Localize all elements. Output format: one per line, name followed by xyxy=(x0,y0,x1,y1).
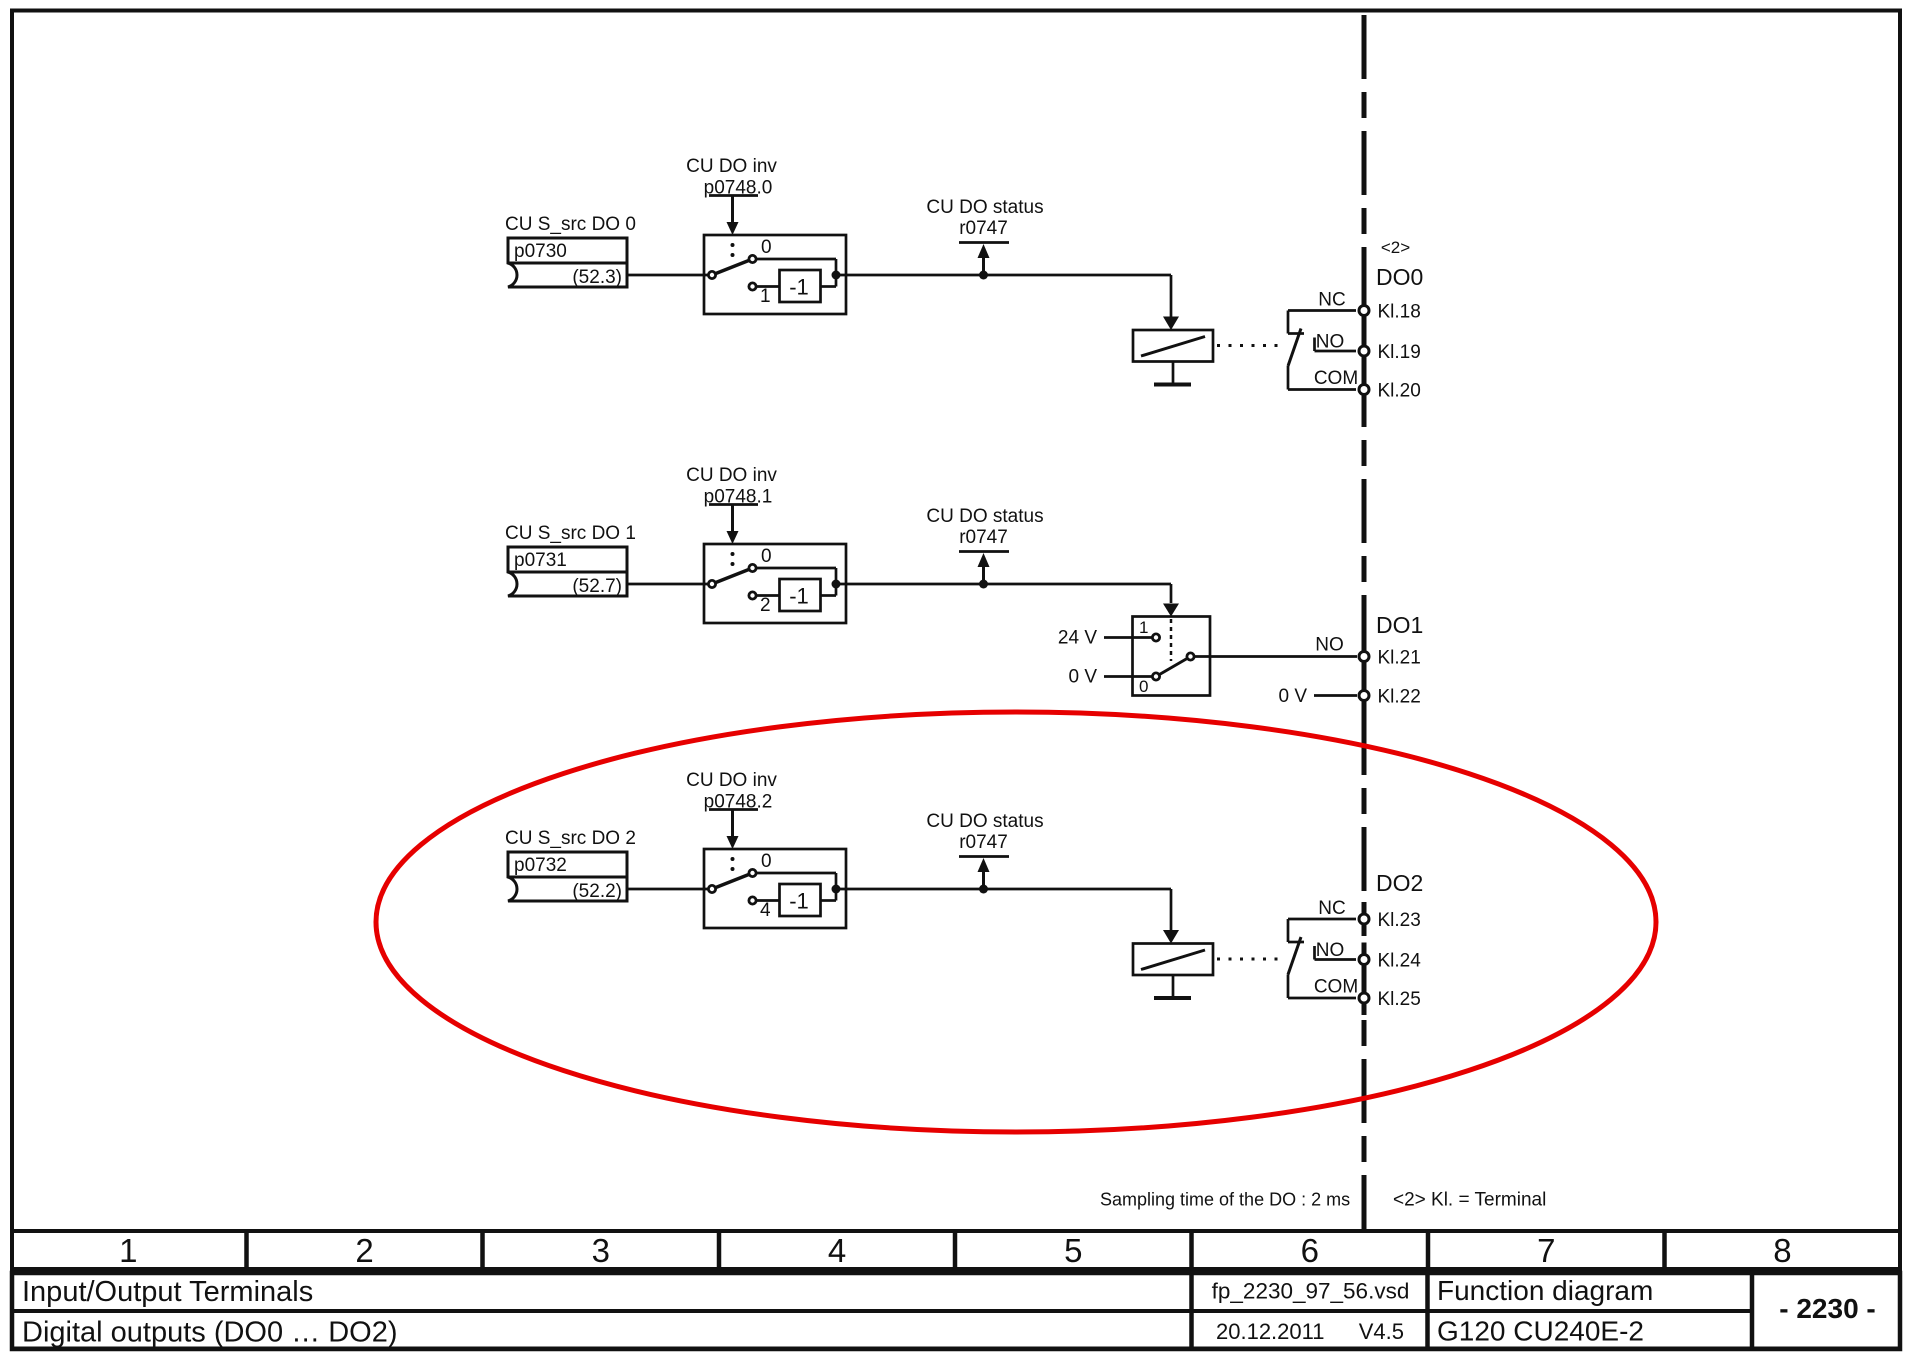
svg-text:r0747: r0747 xyxy=(959,218,1008,239)
parameter label p0748.2 (CU DO inv) with arrow into switch DO2 xyxy=(686,770,777,849)
svg-text:CU S_src DO 1: CU S_src DO 1 xyxy=(505,523,636,544)
svg-text:4: 4 xyxy=(760,900,771,921)
svg-text:CU DO inv: CU DO inv xyxy=(686,770,777,791)
svg-text:0 V: 0 V xyxy=(1278,686,1307,707)
svg-text:0: 0 xyxy=(761,546,772,567)
svg-text:CU S_src DO 2: CU S_src DO 2 xyxy=(505,828,636,849)
status tap r0747 (CU DO status) DO0 xyxy=(926,197,1043,280)
ground at relay coil K2 xyxy=(1154,975,1191,998)
terminal Kl.21 (DO1) xyxy=(1359,640,1421,674)
relay changeover contact DO2 (NC/NO/COM) xyxy=(1288,898,1358,998)
svg-text:6: 6 xyxy=(1301,1232,1319,1269)
inverter block -1 (DO2) xyxy=(780,884,821,916)
supply label 24 V with wire into driver DO1 xyxy=(1058,628,1152,649)
svg-text:0: 0 xyxy=(761,851,772,872)
inverter block -1 (DO0) xyxy=(780,270,821,302)
wire DO2 down to relay coil K2 (arrow) xyxy=(1163,889,1179,944)
relay coil K0 (DO0) xyxy=(1133,330,1213,362)
svg-text:Sampling time of the DO : 2 ms: Sampling time of the DO : 2 ms xyxy=(1100,1190,1350,1210)
mechanical link (dotted) coil K2 to contact set DO2 xyxy=(1217,958,1286,961)
svg-text:NC: NC xyxy=(1318,290,1345,311)
terminal Kl.25 (DO2) xyxy=(1359,981,1421,1015)
ground at relay coil K0 xyxy=(1154,362,1191,385)
svg-text:-1: -1 xyxy=(789,889,809,914)
svg-text:1: 1 xyxy=(760,286,771,307)
svg-text:4: 4 xyxy=(828,1232,846,1269)
svg-text:8: 8 xyxy=(1773,1232,1791,1269)
wire DO1 switch output to driver xyxy=(836,583,1171,586)
terminal Kl.22 (DO1) xyxy=(1359,679,1421,713)
relay coil K2 (DO2) xyxy=(1133,944,1213,976)
svg-text:Kl.24: Kl.24 xyxy=(1378,951,1422,972)
svg-text:NO: NO xyxy=(1316,332,1345,353)
svg-text:0: 0 xyxy=(761,237,772,258)
wire p0730 output to inverter switch DO0 xyxy=(627,274,709,277)
red highlight ellipse around DO2 circuit xyxy=(376,712,1656,1132)
BICO source connector p0731 (CU S_src DO 1) xyxy=(505,523,636,597)
inverter selector switch (CU DO inv) DO0 xyxy=(704,235,846,314)
svg-text:p0730: p0730 xyxy=(514,241,567,262)
svg-text:Kl.21: Kl.21 xyxy=(1378,648,1421,669)
terminal Kl.19 (DO0) xyxy=(1359,334,1421,368)
svg-text:1: 1 xyxy=(119,1232,137,1269)
svg-text:G120 CU240E-2: G120 CU240E-2 xyxy=(1437,1316,1644,1347)
svg-text:NC: NC xyxy=(1318,898,1345,919)
svg-text:<2>: <2> xyxy=(1381,238,1410,257)
node: inverter switch output DO2 xyxy=(832,885,841,894)
svg-text:CU DO status: CU DO status xyxy=(926,197,1043,218)
svg-text:-1: -1 xyxy=(789,584,809,609)
svg-text:CU S_src DO 0: CU S_src DO 0 xyxy=(505,214,636,235)
parameter label p0748.1 (CU DO inv) with arrow into switch DO1 xyxy=(686,465,777,544)
svg-text:3: 3 xyxy=(592,1232,610,1269)
wire p0731 output to inverter switch DO1 xyxy=(627,583,709,586)
svg-text:<2> Kl. = Terminal: <2> Kl. = Terminal xyxy=(1393,1190,1546,1211)
svg-text:CU DO status: CU DO status xyxy=(926,506,1043,527)
node: inverter switch output DO0 xyxy=(832,271,841,280)
title block: column ruler (1-8) xyxy=(12,1231,1900,1269)
svg-text:Digital outputs (DO0 … DO2): Digital outputs (DO0 … DO2) xyxy=(22,1317,398,1349)
svg-text:0 V: 0 V xyxy=(1068,667,1097,688)
title block text: date / version xyxy=(1216,1319,1404,1344)
svg-text:Kl.23: Kl.23 xyxy=(1378,910,1421,931)
svg-text:7: 7 xyxy=(1537,1232,1555,1269)
output driver switch DO1 (24V/0V selector) xyxy=(1133,617,1211,697)
BICO source connector p0732 (CU S_src DO 2) xyxy=(505,828,636,902)
svg-text:DO0: DO0 xyxy=(1376,264,1423,290)
svg-text:r0747: r0747 xyxy=(959,527,1008,548)
supply label 0 V at terminal Kl.22 xyxy=(1278,686,1357,707)
svg-text:r0747: r0747 xyxy=(959,832,1008,853)
svg-text:Kl.22: Kl.22 xyxy=(1378,687,1421,708)
mechanical link (dotted) coil K0 to contact set DO0 xyxy=(1217,344,1286,347)
svg-text:fp_2230_97_56.vsd: fp_2230_97_56.vsd xyxy=(1212,1279,1410,1304)
relay changeover contact DO0 (NC/NO/COM) xyxy=(1288,290,1358,390)
svg-text:DO1: DO1 xyxy=(1376,612,1423,638)
supply label 0 V with wire into driver DO1 xyxy=(1068,667,1151,688)
wire p0732 output to inverter switch DO2 xyxy=(627,888,709,891)
svg-text:p0731: p0731 xyxy=(514,550,567,571)
svg-text:- 2230 -: - 2230 - xyxy=(1779,1293,1876,1324)
wire DO0 down to relay coil K0 (arrow) xyxy=(1163,275,1179,330)
svg-text:(52.2): (52.2) xyxy=(572,881,622,902)
svg-text:CU DO status: CU DO status xyxy=(926,811,1043,832)
parameter label p0748.0 (CU DO inv) with arrow into switch DO0 xyxy=(686,156,777,235)
svg-text:5: 5 xyxy=(1064,1232,1082,1269)
svg-text:20.12.2011: 20.12.2011 xyxy=(1216,1319,1324,1344)
wire DO1 down to output driver (arrow) xyxy=(1163,584,1179,617)
svg-text:0: 0 xyxy=(1139,677,1148,696)
svg-text:NO: NO xyxy=(1315,635,1344,656)
status tap r0747 (CU DO status) DO2 xyxy=(926,811,1043,894)
svg-text:CU DO inv: CU DO inv xyxy=(686,465,777,486)
svg-text:Kl.19: Kl.19 xyxy=(1378,342,1421,363)
status tap r0747 (CU DO status) DO1 xyxy=(926,506,1043,589)
node: inverter switch output DO1 xyxy=(832,580,841,589)
svg-text:COM: COM xyxy=(1314,977,1358,998)
svg-text:Kl.20: Kl.20 xyxy=(1378,381,1421,402)
svg-text:Input/Output Terminals: Input/Output Terminals xyxy=(22,1276,313,1308)
wire DO2 switch output to driver xyxy=(836,888,1171,891)
inverter selector switch (CU DO inv) DO1 xyxy=(704,544,846,623)
svg-text:DO2: DO2 xyxy=(1376,870,1423,896)
terminal Kl.20 (DO0) xyxy=(1359,373,1421,407)
terminal Kl.18 (DO0) xyxy=(1359,294,1421,328)
terminal bus line (dashed, Kl. terminals) xyxy=(1362,15,1367,1229)
wire driver DO1 output to terminal Kl.21 xyxy=(1195,635,1357,657)
terminal Kl.23 (DO2) xyxy=(1359,902,1421,936)
inverter block -1 (DO1) xyxy=(780,579,821,611)
svg-text:NO: NO xyxy=(1316,940,1345,961)
svg-text:-1: -1 xyxy=(789,275,809,300)
svg-text:(52.7): (52.7) xyxy=(572,576,622,597)
terminal Kl.24 (DO2) xyxy=(1359,943,1421,977)
svg-text:V4.5: V4.5 xyxy=(1359,1319,1404,1344)
BICO source connector p0730 (CU S_src DO 0) xyxy=(505,214,636,288)
svg-text:1: 1 xyxy=(1139,618,1148,637)
title block: main table xyxy=(12,1273,1900,1349)
wire DO0 switch output to driver xyxy=(836,274,1171,277)
svg-text:(52.3): (52.3) xyxy=(572,267,622,288)
svg-text:p0732: p0732 xyxy=(514,855,567,876)
svg-text:Kl.25: Kl.25 xyxy=(1378,989,1421,1010)
svg-text:2: 2 xyxy=(355,1232,373,1269)
svg-text:Function diagram: Function diagram xyxy=(1437,1275,1653,1306)
inverter selector switch (CU DO inv) DO2 xyxy=(704,849,846,928)
svg-text:24 V: 24 V xyxy=(1058,628,1097,649)
svg-text:2: 2 xyxy=(760,595,771,616)
svg-text:COM: COM xyxy=(1314,368,1358,389)
svg-text:Kl.18: Kl.18 xyxy=(1378,302,1421,323)
svg-text:CU DO inv: CU DO inv xyxy=(686,156,777,177)
